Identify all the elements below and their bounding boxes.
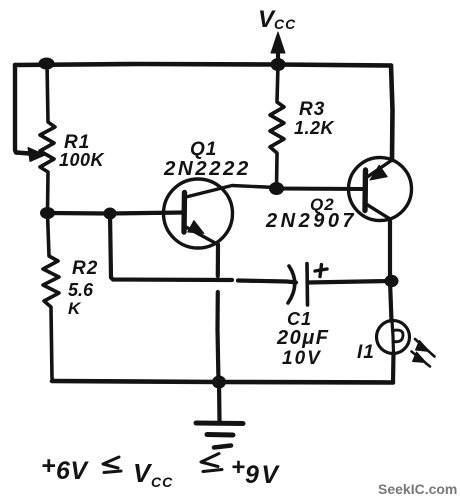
svg-text:I1: I1: [357, 342, 375, 363]
svg-text:6V: 6V: [56, 457, 89, 485]
resistor R2 body: [43, 213, 59, 381]
transistor Q1 collector lead: [186, 186, 276, 198]
svg-text:CC: CC: [151, 474, 173, 490]
svg-text:V: V: [133, 458, 153, 488]
transistor Q1 emitter lead: [185, 227, 218, 245]
wire right vertical (Vcc to Q2 emitter): [391, 66, 393, 161]
svg-text:10V: 10V: [282, 348, 322, 369]
resistor R3 body: [270, 65, 284, 189]
node ground junction: [212, 376, 226, 389]
svg-text:9V: 9V: [245, 461, 281, 489]
svg-text:2N2907: 2N2907: [265, 210, 357, 232]
Vcc arrow stem: [276, 44, 280, 63]
ground bar 1: [196, 421, 243, 427]
svg-text:1.2K: 1.2K: [294, 118, 336, 138]
transistor Q1 circle: [164, 179, 233, 248]
wire R3 node to Q2 base: [277, 187, 364, 192]
capacitor C1 straight plate: [305, 264, 309, 306]
node R1 top: [39, 58, 55, 70]
wire I1 to bottom rail: [391, 353, 396, 383]
wire Q2 collector down to C1 node and I1: [390, 219, 392, 321]
wiper arrowhead of R1: [28, 148, 45, 162]
node Vcc / R3 top: [271, 58, 286, 71]
svg-text:100K: 100K: [59, 150, 106, 170]
svg-text:+: +: [231, 454, 245, 481]
svg-text:CC: CC: [274, 16, 296, 32]
svg-text:20μF: 20μF: [276, 327, 330, 349]
svg-text:K: K: [68, 299, 82, 318]
Vcc arrowhead: [271, 32, 285, 53]
transistor Q1 emitter arrowhead: [188, 221, 204, 234]
wire C1 to Q2 collector node: [308, 281, 391, 283]
lamp I1 light arrow lower: [412, 352, 431, 367]
lamp I1 light arrow upper: [415, 339, 435, 357]
wire base row to Q1: [48, 213, 185, 214]
ground bar 2: [207, 432, 233, 438]
node R3 bottom / Q1 collector junction: [269, 182, 284, 195]
lamp I1 filament: [392, 321, 394, 353]
svg-text:2N2222: 2N2222: [163, 157, 251, 180]
symbol less-or-equal 2: [201, 454, 222, 472]
wire C1 branch (down and right): [110, 214, 232, 281]
transistor Q2 collector lead: [366, 204, 390, 219]
symbol less-or-equal 1: [103, 457, 121, 473]
transistor Q2 emitter lead (top): [367, 160, 393, 178]
transistor Q2 circle: [349, 158, 412, 221]
wire bottom rail: [52, 381, 393, 383]
capacitor C1 curved plate: [288, 266, 295, 303]
resistor R1 body (potentiometer): [40, 63, 55, 213]
svg-text:C1: C1: [287, 309, 312, 329]
svg-text:+: +: [41, 452, 56, 480]
transistor Q1 base bar: [181, 193, 187, 233]
ground stem: [217, 382, 222, 421]
wire top rail: [15, 64, 391, 66]
wire Q1 emitter down to ground rail: [216, 245, 220, 277]
transistor Q2 emitter arrowhead: [370, 165, 387, 180]
ground bar 3: [214, 446, 231, 448]
node R1 bottom / base row left: [40, 207, 55, 219]
transistor Q2 base bar: [362, 170, 368, 211]
svg-text:R3: R3: [299, 99, 325, 120]
node C1 tap: [104, 208, 117, 220]
node C1 right / collector: [385, 275, 399, 287]
svg-text:R2: R2: [72, 258, 98, 279]
svg-text:SeekIC.com: SeekIC.com: [378, 481, 457, 497]
wire left wiper feed: [15, 65, 30, 154]
lamp I1 circle: [377, 321, 410, 354]
capacitor C1 plus sign: [315, 265, 327, 277]
svg-text:5.6: 5.6: [68, 280, 94, 300]
